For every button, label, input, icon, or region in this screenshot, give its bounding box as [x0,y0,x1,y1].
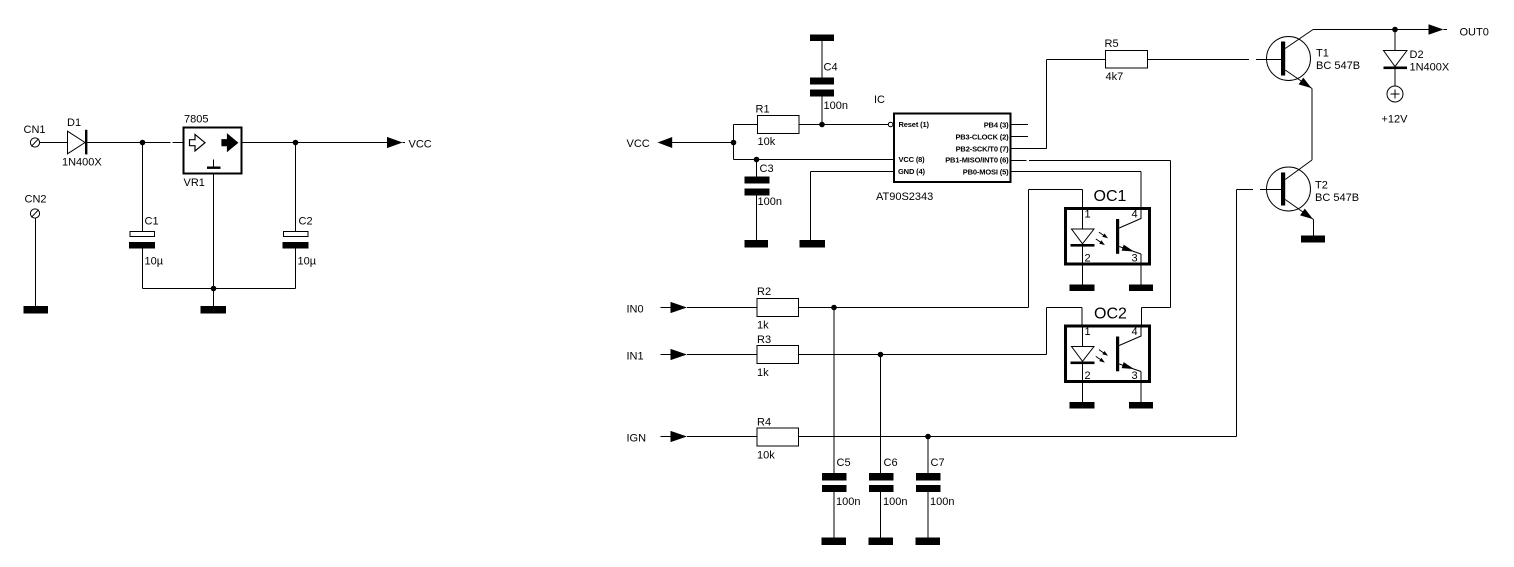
svg-text:VCC (8): VCC (8) [899,155,926,164]
svg-text:C4: C4 [824,62,838,74]
svg-text:10k: 10k [757,450,775,462]
ground symbol C4 top [810,35,834,42]
wire OUT0 rail [1313,29,1429,31]
svg-text:10k: 10k [758,136,776,148]
VR1 ground mark [207,160,221,169]
svg-text:BC 547B: BC 547B [1315,192,1359,204]
OC2 light arrow a [1099,350,1108,356]
svg-text:3: 3 [1132,253,1138,265]
wire VCC to node C [672,142,733,144]
svg-text:2: 2 [1085,253,1091,265]
wire node F to C5 [833,308,835,474]
ground symbol left [201,306,227,314]
wire node H to C7 [927,437,929,474]
wire C2 to ground rail [295,249,297,289]
svg-text:1: 1 [1085,209,1091,221]
svg-text:3: 3 [1132,370,1138,382]
reset inverter circle [888,122,893,127]
svg-text:T1: T1 [1316,48,1329,60]
svg-text:4: 4 [1132,209,1138,221]
wire R5 to T1 base [1148,59,1282,61]
wire R2 to OC1 route [799,307,1029,309]
wire node I to D2 [1394,30,1396,51]
OC1 light arrow b [1096,239,1105,245]
svg-text:OUT0: OUT0 [1460,27,1489,39]
optocoupler OC1 box [1066,209,1150,265]
wire node A to C1 [142,143,144,232]
capacitor C1 [129,232,155,249]
svg-text:D1: D1 [67,117,81,129]
node A junction [140,140,146,146]
wire D1 to node A [87,142,170,144]
svg-text:4k7: 4k7 [1106,71,1124,83]
ground symbol CN2 [24,306,49,314]
svg-text:OC2: OC2 [1094,306,1127,323]
wire T2 base [1237,189,1282,191]
wire D2 to source [1394,69,1396,86]
capacitor C7 [916,473,941,492]
svg-text:PB0-MOSI (5): PB0-MOSI (5) [963,168,1009,177]
resistor R5 [1106,51,1148,69]
OC2 LED anode stem [1082,325,1084,347]
svg-text:C2: C2 [299,216,313,228]
OC2 phototransistor bar [1116,337,1119,372]
pin stub PB4 [1012,124,1029,126]
OC1 light arrow a [1099,232,1108,238]
VCC arrow left [658,137,673,148]
svg-text:PB3-CLOCK (2): PB3-CLOCK (2) [955,133,1009,142]
OC2 LED cathode stem [1082,364,1084,402]
svg-text:R2: R2 [757,286,771,298]
wire IC GND pin [811,172,894,241]
svg-text:100n: 100n [758,196,782,208]
wire PB1 to OC2 [1012,161,1171,325]
svg-text:R3: R3 [757,334,771,346]
IGN input arrow [661,431,688,442]
ground symbol IC [800,240,826,248]
wire node G to C6 [880,355,882,474]
wire junction to ground [213,289,215,307]
OC1 phototransistor bar [1116,219,1119,254]
OC2 LED [1071,347,1095,365]
svg-text:1: 1 [1085,326,1091,338]
VR1 input arrow [190,134,206,151]
svg-text:C7: C7 [931,457,945,469]
IN0 input arrow [661,302,688,313]
svg-text:C5: C5 [837,457,851,469]
svg-text:1k: 1k [757,320,769,332]
diode D2 [1384,51,1408,70]
svg-text:7805: 7805 [184,114,208,126]
wire R1 to reset [799,124,888,126]
wire VCC rail to IC [734,159,894,161]
+12V source symbol [1387,86,1403,102]
svg-text:100n: 100n [883,496,907,508]
svg-text:PB2-SCK/T0 (7): PB2-SCK/T0 (7) [956,145,1010,154]
voltage regulator VR1 box [184,128,242,174]
wire C3 to ground [756,196,758,241]
svg-text:100n: 100n [836,496,860,508]
svg-text:Reset (1): Reset (1) [899,120,930,129]
wire dash to VR1 [173,142,184,144]
connector CN2 [30,209,39,218]
ground symbol OC1 pin2 [1070,285,1095,292]
svg-text:C6: C6 [884,457,898,469]
wire R4 to T2 base route [799,190,1237,437]
svg-text:1N400X: 1N400X [62,157,102,169]
wire IN0 to R2 [687,307,757,309]
ground symbol OC1 pin3 [1129,285,1153,292]
svg-text:D2: D2 [1410,49,1424,61]
svg-text:GND (4): GND (4) [898,167,926,176]
wire C4 to node D [821,97,823,125]
svg-text:C1: C1 [145,216,159,228]
OC2 emitter [1119,362,1141,402]
VCC arrow right [387,137,405,148]
wire VR1 to ground rail [213,174,215,289]
OC1 collector [1119,209,1141,229]
node C junction [731,140,737,146]
transistor T2 [1267,167,1311,211]
capacitor C6 [869,473,894,492]
capacitor C2 [283,232,309,249]
ground symbol OC2 pin2 [1070,402,1095,409]
pin stub PB3 [1012,136,1029,138]
VR1 output arrow [222,134,238,151]
svg-text:IC: IC [874,94,885,106]
ground symbol C6 [869,538,894,546]
svg-text:VR1: VR1 [184,177,205,189]
wire up to OC1 pin1 [1029,190,1083,308]
T2 emitter [1285,200,1313,236]
wire PB0 to OC1 [1012,172,1142,208]
T2 collector [1285,160,1312,180]
wire R3 to OC2 route [799,354,1047,356]
svg-text:OC1: OC1 [1094,188,1127,205]
svg-text:PB1-MISO/INT0 (6): PB1-MISO/INT0 (6) [945,156,1009,165]
node F junction C5 tap [831,305,837,311]
wire node C up/down [733,125,735,160]
node G junction C6 tap [878,352,884,358]
OC1 LED cathode stem [1082,247,1084,285]
svg-text:100n: 100n [930,496,954,508]
node D junction C4 tap [819,122,825,128]
wire to R1 [734,124,758,126]
IC AT90S2343 box [894,114,1011,183]
wire C6 to ground [880,492,882,538]
IN1 input arrow [661,349,688,360]
svg-text:R5: R5 [1105,38,1119,50]
svg-text:BC 547B: BC 547B [1316,60,1360,72]
svg-text:IGN: IGN [627,433,647,445]
svg-text:100n: 100n [824,100,848,112]
wire CN1 to D1 [40,142,68,144]
capacitor C4 [810,78,834,97]
wire C4 to top ground [821,41,823,78]
ground symbol OC2 pin3 [1129,402,1153,409]
svg-text:10µ: 10µ [298,256,317,268]
node E junction C3 tap [754,157,760,163]
wire node E to C3 [756,160,758,177]
wire CN2 to ground [35,218,37,306]
transistor T1 [1267,37,1311,81]
capacitor C3 [745,177,770,196]
svg-text:VCC: VCC [409,139,432,151]
ground symbol T2 [1301,236,1325,243]
node I junction D2 tap [1392,27,1398,33]
wire IGN to R4 [687,436,757,438]
ground rail wire [143,288,296,290]
wire up to OC2 pin1 [1047,308,1083,355]
OC1 LED [1071,229,1095,247]
resistor R4 [757,428,799,446]
ground rail junction [211,286,217,292]
ground symbol C7 [916,538,941,546]
ground symbol C3 [745,240,769,248]
OC1 emitter [1119,245,1141,285]
wire C5 to ground [833,492,835,538]
resistor R1 [758,116,800,134]
wire VR1 to node B [243,142,388,144]
optocoupler OC2 box [1066,326,1150,382]
connector CN1 [30,138,39,147]
svg-text:1N400X: 1N400X [1410,62,1450,74]
wire IN1 to R3 [687,354,757,356]
svg-text:IN1: IN1 [627,351,644,363]
svg-text:10µ: 10µ [145,256,164,268]
node H junction C7 tap [925,434,931,440]
svg-text:CN1: CN1 [24,124,46,136]
diode D1 [68,130,88,155]
svg-text:AT90S2343: AT90S2343 [876,191,933,203]
svg-text:R4: R4 [757,417,771,429]
ground symbol C5 [822,538,847,546]
T1 emitter [1285,70,1312,160]
node B junction [293,140,299,146]
svg-text:CN2: CN2 [25,194,47,206]
svg-text:+12V: +12V [1382,114,1409,126]
svg-text:C3: C3 [760,163,774,175]
OC2 collector [1119,326,1141,346]
svg-text:IN0: IN0 [627,304,644,316]
resistor R2 [757,299,799,317]
OC1 LED anode stem [1082,207,1084,229]
wire C7 to ground [927,492,929,538]
OUT0 arrow [1429,24,1448,35]
svg-text:VCC: VCC [627,138,650,150]
capacitor C5 [822,473,847,492]
wire C1 to ground rail [142,249,144,289]
wire node B to C2 [295,143,297,232]
svg-text:2: 2 [1085,370,1091,382]
svg-text:PB4 (3): PB4 (3) [984,121,1009,130]
resistor R3 [757,346,799,364]
T1 collector [1285,30,1313,49]
svg-text:1k: 1k [757,367,769,379]
svg-text:T2: T2 [1315,180,1328,192]
svg-text:R1: R1 [756,104,770,116]
OC2 light arrow b [1096,356,1105,362]
wire PB2 to R5 [1012,60,1106,149]
svg-text:4: 4 [1132,326,1138,338]
